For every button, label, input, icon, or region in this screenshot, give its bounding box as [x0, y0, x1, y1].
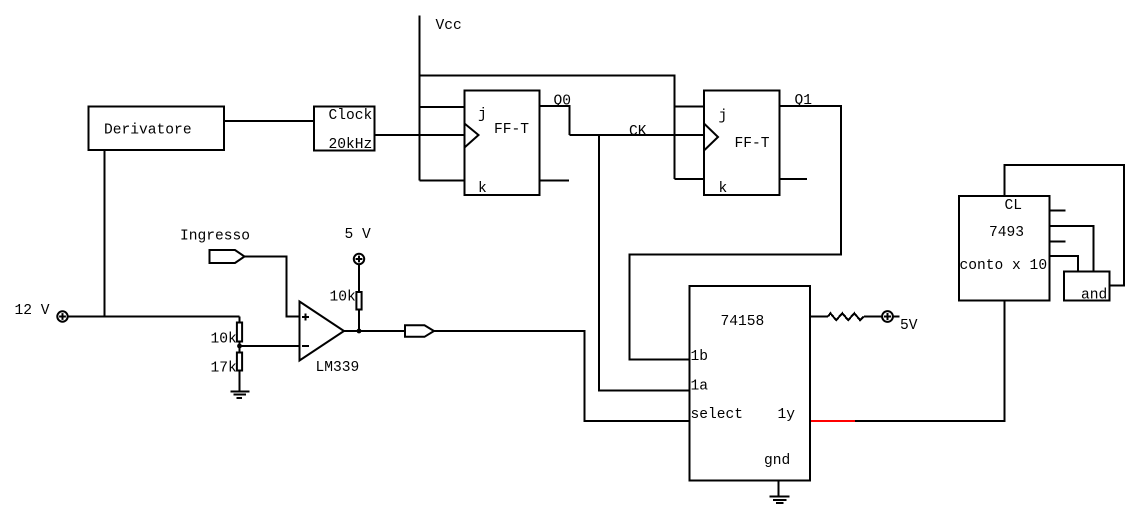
svg-text:1a: 1a: [691, 379, 709, 395]
block Derivatore: [89, 107, 225, 151]
wire node CK to FF2 clock input: [570, 134, 705, 136]
svg-text:7493: 7493: [989, 225, 1024, 241]
supply symbol 5V circle-plus (op-amp pull-up): [354, 254, 364, 264]
svg-text:20kHz: 20kHz: [329, 137, 373, 153]
wire Q0 output of FF1: [540, 106, 570, 135]
svg-text:Clock: Clock: [329, 108, 373, 124]
svg-text:k: k: [478, 181, 487, 197]
svg-text:FF-T: FF-T: [494, 122, 529, 138]
ground under 17k: [231, 391, 250, 398]
svg-text:74158: 74158: [721, 314, 765, 330]
tag op-amp output connector: [405, 325, 434, 337]
op-amp plus input sign: [302, 314, 309, 321]
svg-text:10k: 10k: [211, 332, 238, 348]
wire FF2 k output stub: [780, 178, 808, 180]
wire 1y black segment to 7493 bottom input: [855, 301, 1005, 422]
svg-text:17k: 17k: [211, 361, 238, 377]
svg-text:Q1: Q1: [795, 93, 813, 109]
tag Ingresso input connector: [210, 250, 245, 263]
wire Q1 output of FF2 to 74158 pin 1b: [630, 106, 842, 360]
wire 74158 gnd stub: [778, 481, 780, 497]
svg-text:10k: 10k: [330, 290, 357, 306]
resistor 10k op-amp pull-up: [356, 292, 361, 310]
svg-text:select: select: [691, 407, 744, 423]
net Vcc vertical wire: [419, 16, 421, 181]
wire 1y red segment: [810, 420, 855, 422]
svg-text:CL: CL: [1005, 198, 1023, 214]
wire 10k pull-up to output node: [358, 310, 360, 332]
svg-text:k: k: [719, 181, 728, 197]
wire Vcc feed to FF-T2: [420, 76, 675, 180]
supply symbol 12V circle-plus: [57, 311, 67, 321]
svg-text:CK: CK: [629, 124, 647, 140]
resistor pull-up zigzag at 74158: [828, 313, 864, 320]
wire node to op-amp inverting input: [240, 345, 300, 347]
wire resistor to 5V supply circle: [864, 316, 882, 318]
svg-text:5V: 5V: [900, 318, 918, 334]
svg-text:Q0: Q0: [554, 94, 572, 110]
wire FF2 k input: [675, 178, 705, 180]
wire 12V rail: [68, 316, 240, 318]
wire FF2 j input: [675, 106, 705, 108]
svg-text:1y: 1y: [778, 407, 796, 423]
wire output tag to 74158 select: [434, 331, 690, 421]
wire 7493 output stub A: [1050, 210, 1066, 212]
svg-text:5 V: 5 V: [345, 227, 372, 243]
wire divider top to 10k resistor: [239, 317, 241, 323]
resistor 10k divider upper: [237, 323, 242, 342]
block Clock 20kHz: [314, 107, 375, 151]
wire op-amp output to tag: [344, 330, 406, 332]
wire Derivatore to Clock: [224, 120, 314, 122]
svg-text:conto x 10: conto x 10: [960, 258, 1048, 274]
wire 5V circle right stub: [894, 316, 900, 318]
wire 7493 output stub B to and box: [1050, 226, 1094, 272]
wire 74158 pull-up left segment: [810, 316, 828, 318]
svg-text:and: and: [1081, 288, 1107, 304]
svg-text:Vcc: Vcc: [436, 18, 462, 34]
wire Ingresso to op-amp non-inverting input: [245, 257, 300, 317]
chip U4 7493: [959, 196, 1050, 301]
flip-flop U1 FF-T: [465, 91, 540, 196]
wire 7493 CL top loop to and box: [1005, 165, 1125, 286]
wire 17k to ground: [239, 371, 241, 392]
wire Clock output to FF1 clock input: [375, 134, 465, 136]
wire 7493 output stub C: [1050, 241, 1066, 243]
wire FF1 k output stub: [540, 180, 570, 182]
junction node at op-amp output: [357, 329, 362, 334]
wire FF1 k input: [420, 180, 465, 182]
svg-text:1b: 1b: [691, 349, 709, 365]
wire FF1 j input: [420, 106, 465, 108]
junction node at divider: [237, 344, 242, 349]
clock triangle of U2: [704, 124, 718, 151]
resistor 17k divider lower: [237, 353, 242, 371]
supply symbol 5V circle-plus (74158 pull-up): [882, 311, 893, 322]
wire CK node down to 74158 pin 1a: [599, 135, 690, 391]
op-amp U5 LM339 triangle: [300, 302, 345, 361]
svg-text:gnd: gnd: [764, 453, 790, 469]
svg-text:Derivatore: Derivatore: [104, 123, 192, 139]
wire 7493 output stub D to and box: [1050, 256, 1079, 272]
svg-text:Ingresso: Ingresso: [180, 229, 250, 245]
gate and: [1064, 272, 1110, 301]
flip-flop U2 FF-T: [704, 91, 780, 196]
ground under 74158: [770, 497, 790, 503]
op-amp minus input sign: [302, 345, 309, 347]
wire 5V supply to 10k pull-up: [358, 264, 360, 292]
wire Derivatore down to 12V rail: [104, 150, 106, 317]
clock triangle of U1: [465, 124, 479, 148]
svg-text:FF-T: FF-T: [735, 136, 770, 152]
svg-text:12 V: 12 V: [15, 303, 50, 319]
wire 10k to node to 17k: [239, 342, 241, 353]
chip U3 74158: [690, 286, 811, 481]
svg-text:j: j: [719, 109, 728, 125]
svg-text:LM339: LM339: [316, 360, 360, 376]
svg-text:j: j: [478, 107, 487, 123]
